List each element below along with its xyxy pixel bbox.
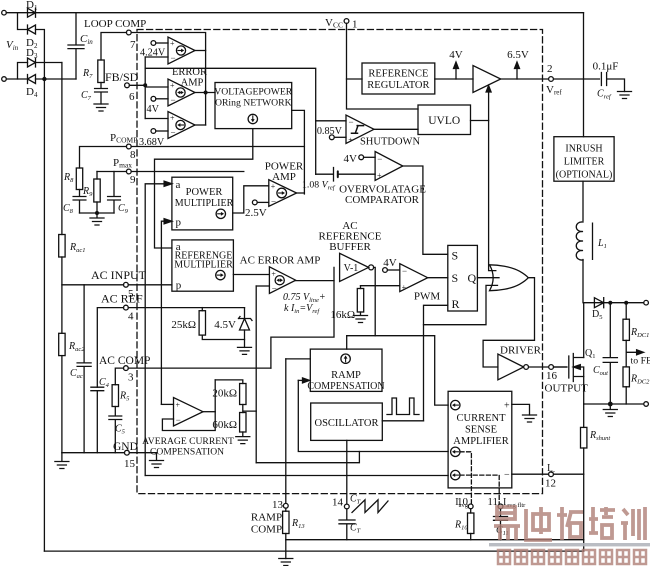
svg-text:COMP: COMP bbox=[251, 524, 282, 536]
wire pin7 external to R7 bbox=[101, 33, 126, 61]
IC boundary dashed box bbox=[137, 30, 543, 494]
wire ramp comp input 1 bbox=[286, 358, 311, 360]
wire pin16 to gate bbox=[554, 366, 567, 368]
svg-text:−: − bbox=[171, 95, 176, 105]
svg-text:R: R bbox=[452, 297, 460, 311]
node pin 9 Pmax bbox=[126, 169, 131, 174]
wire pin4 external to C4 bbox=[97, 308, 123, 388]
svg-text:+: + bbox=[377, 171, 382, 180]
wire pin3 internal bbox=[128, 367, 271, 369]
ground symbol under R13 bbox=[279, 559, 293, 566]
node 2.5V terminal bbox=[252, 200, 257, 205]
diode D4 bbox=[28, 75, 36, 84]
wire ramp comp top to summing line bbox=[346, 336, 348, 349]
block CURRENT SENSE AMPLIFIER bbox=[448, 391, 512, 488]
wire ref multiplier output to AC error amp plus bbox=[233, 274, 269, 276]
wire oscillator output bbox=[382, 420, 423, 422]
node pin 11 Iavgfltr bbox=[498, 504, 503, 509]
current mirror symbol 1 bbox=[451, 400, 460, 409]
resistor Rshunt bbox=[581, 427, 587, 448]
wire pin1 to ref regulator and UVLO bbox=[347, 23, 419, 109]
resistor 20k bbox=[240, 384, 246, 405]
capacitor CT bbox=[339, 509, 355, 540]
block REFERENGE MULTIPLIER bbox=[172, 240, 234, 291]
node Vin+ terminal bbox=[2, 10, 7, 15]
wire error amp input bracket bbox=[144, 57, 146, 119]
wire power multiplier output to power amp bbox=[233, 186, 269, 213]
dashed wire CS mirror2 to pin10 bbox=[460, 452, 471, 504]
svg-text:RAMP: RAMP bbox=[251, 512, 282, 524]
resistor R9 bbox=[96, 172, 98, 180]
node 4V terminal (OVP) bbox=[359, 155, 364, 160]
svg-text:4V: 4V bbox=[147, 104, 160, 115]
block S-R latch bbox=[448, 245, 478, 311]
svg-text:+: + bbox=[170, 114, 175, 123]
svg-text:GND: GND bbox=[113, 441, 138, 453]
node pin 6 FB/SD bbox=[125, 83, 130, 88]
svg-text:−: − bbox=[171, 53, 176, 63]
block RAMP COMPENSATION bbox=[310, 349, 382, 391]
wire gnd rail left bbox=[62, 452, 157, 454]
wire 3.68V to amp3 minus bbox=[156, 130, 168, 132]
wire top rail y12.7 bbox=[6, 12, 583, 14]
resistor 16k bbox=[360, 286, 362, 289]
wire power multiplier a input (from averaged current) bbox=[145, 184, 164, 476]
wire power multiplier p input (from avg current comp) bbox=[161, 221, 164, 404]
wire pin13 riser bbox=[285, 359, 287, 504]
wire source to Rshunt bbox=[583, 404, 585, 427]
svg-text:AC COMP: AC COMP bbox=[99, 355, 150, 367]
buffer vref bbox=[473, 66, 501, 93]
resistor R13 bbox=[285, 508, 287, 511]
block POWER MULTIPLIER bbox=[172, 177, 233, 230]
resistor RDC1 bbox=[625, 303, 627, 320]
diode D2 bbox=[28, 25, 36, 34]
watermark big text line bbox=[494, 507, 645, 540]
node pin 7 LOOP COMP bbox=[126, 30, 131, 35]
ground symbol under C7 bbox=[94, 104, 108, 111]
block UVLO bbox=[418, 105, 471, 135]
svg-text:POWER: POWER bbox=[186, 187, 223, 198]
diode D5 bbox=[584, 298, 646, 308]
wire branch to D2 bbox=[18, 13, 28, 30]
wire PWM output to latch S bbox=[428, 277, 448, 279]
wire avg comp output bbox=[203, 411, 215, 413]
svg-text:p: p bbox=[176, 217, 182, 229]
wire latch Q to OR gate bbox=[477, 277, 499, 279]
resistor R10 bbox=[470, 509, 472, 513]
svg-text:AMP: AMP bbox=[272, 171, 296, 183]
ground symbol left rail bbox=[55, 453, 69, 469]
resistor Rac1 bbox=[59, 235, 65, 258]
gate OR bbox=[490, 265, 529, 291]
svg-text:SHUTDOWN: SHUTDOWN bbox=[360, 137, 420, 148]
svg-text:4.24V: 4.24V bbox=[140, 48, 166, 59]
svg-text:a: a bbox=[176, 179, 181, 191]
resistor RDC2 bbox=[623, 367, 629, 387]
node pin 3 AC COMP bbox=[124, 366, 129, 371]
diode D1 bbox=[28, 8, 36, 17]
wire top rail down to inrush limiter bbox=[583, 13, 585, 137]
wire 4V to OVP minus bbox=[364, 156, 376, 158]
ground symbol CS plus bbox=[523, 415, 537, 422]
capacitor Cac bbox=[77, 285, 91, 453]
wire summing node to PWM plus bbox=[361, 285, 400, 287]
node pin 4 AC REF bbox=[124, 305, 129, 310]
node 4V internal arrow bbox=[455, 68, 457, 79]
node 0.85V terminal bbox=[329, 135, 334, 140]
svg-text:7: 7 bbox=[130, 39, 136, 51]
node DC output - terminal bbox=[644, 402, 649, 407]
wire CS plus output to ground bbox=[512, 404, 530, 415]
node 4V terminal (error amp2) bbox=[151, 96, 156, 101]
wire amp3 output bbox=[195, 124, 206, 126]
comparator overvoltage bbox=[375, 152, 403, 181]
wire 4V to PWM minus bbox=[387, 269, 399, 271]
wire accomp net to CS input 2 jog bbox=[256, 452, 359, 463]
wire OR output to driver bbox=[483, 278, 534, 367]
svg-text:4V: 4V bbox=[344, 153, 358, 165]
svg-text:AC REF: AC REF bbox=[101, 292, 143, 306]
wire FB/SD to shutdown and OVP bbox=[145, 68, 316, 174]
svg-text:+: + bbox=[170, 39, 175, 48]
wire drain up to D5 junction bbox=[583, 303, 585, 358]
wire R10 to rail bbox=[470, 534, 472, 540]
diode D3 bbox=[28, 58, 36, 67]
svg-text:0.1μF: 0.1μF bbox=[593, 61, 619, 73]
svg-text:AC INPUT: AC INPUT bbox=[91, 268, 147, 282]
node 6.5V arrow bbox=[516, 68, 518, 79]
ground symbol at pin15 bbox=[150, 453, 164, 468]
wire pin8 external to R8 bbox=[80, 147, 127, 169]
buffer V-1 bbox=[340, 253, 369, 281]
capacitor C7 bbox=[95, 83, 108, 105]
wire D3 output down bbox=[36, 62, 62, 64]
svg-text:REFERENCE: REFERENCE bbox=[368, 69, 428, 80]
wire ramp comp input 2 (arrow) bbox=[298, 379, 303, 381]
node error amp output dot bbox=[204, 91, 208, 95]
svg-text:LOOP COMP: LOOP COMP bbox=[84, 18, 146, 30]
node pin 15 GND bbox=[125, 450, 130, 455]
wire pin7 internal to error amp output bbox=[131, 33, 205, 126]
block INRUSH LIMITER (OPTIONAL) bbox=[554, 137, 614, 182]
wire amp2 output bbox=[195, 92, 215, 94]
wire 20k top connection bbox=[215, 380, 243, 384]
wire latch S1 input from OVP bbox=[403, 166, 448, 254]
wire inrush to L1 bbox=[582, 181, 584, 221]
wire amp2 plus stub bbox=[145, 86, 168, 88]
svg-text:INRUSH: INRUSH bbox=[565, 144, 602, 155]
node RDC1 top junction bbox=[624, 301, 628, 305]
node pin 13 RAMP COMP bbox=[283, 503, 288, 508]
wire pin9 internal to power multiplier output bbox=[131, 171, 244, 173]
svg-text:9: 9 bbox=[130, 174, 136, 186]
svg-text:4: 4 bbox=[128, 311, 134, 323]
transistor Q1 bbox=[569, 354, 584, 382]
svg-text:OSCILLATOR: OSCILLATOR bbox=[315, 418, 379, 429]
wire battery to OVP plus bbox=[339, 173, 375, 175]
svg-text:LIMITER: LIMITER bbox=[564, 157, 605, 168]
wire AC divider feed bbox=[61, 63, 63, 235]
node pin 5 AC INPUT bbox=[124, 282, 129, 287]
wire R13 to ground bbox=[285, 534, 287, 559]
svg-text:V-1: V-1 bbox=[344, 263, 359, 274]
capacitor C4 bbox=[91, 387, 104, 453]
wire driver output to pin16 bbox=[529, 366, 567, 368]
current mirror symbol 2 bbox=[451, 447, 460, 456]
capacitor Cref 0.1uF bbox=[601, 73, 624, 92]
ground symbol output bbox=[603, 404, 617, 417]
capacitor C11 bbox=[494, 509, 508, 540]
wire 25k bottom to zener anode bbox=[202, 335, 244, 339]
wire averaged current line to CS input 3 bbox=[145, 475, 448, 477]
svg-text:+: + bbox=[402, 283, 407, 292]
inductor L1 bbox=[576, 222, 583, 260]
wire pin4 internal to 25k and zener bbox=[128, 307, 244, 309]
svg-text:CURRENT: CURRENT bbox=[456, 413, 506, 424]
wire 4.24V to amp1 plus bbox=[156, 42, 168, 44]
wire amp1 output bbox=[195, 50, 206, 52]
svg-text:p: p bbox=[176, 280, 182, 292]
svg-text:2: 2 bbox=[547, 63, 553, 75]
node pin 2 Vref bbox=[549, 77, 554, 82]
node bridge return junction bbox=[42, 77, 46, 81]
svg-text:BUFFER: BUFFER bbox=[329, 241, 371, 253]
svg-text:14: 14 bbox=[332, 497, 344, 509]
svg-text:+: + bbox=[348, 136, 353, 145]
wire ref regulator output to buffer bbox=[435, 78, 473, 80]
wire UVLO net to OR top input bbox=[471, 121, 496, 271]
wire AC comp node riser bbox=[255, 286, 257, 463]
node 3.68V terminal bbox=[151, 129, 156, 134]
op-amp avg current comp bbox=[174, 398, 204, 427]
node pin 14 CT bbox=[344, 504, 349, 509]
wire schematic bottom border bbox=[44, 550, 583, 552]
wire summing line B to CS input 1 bbox=[347, 336, 448, 405]
svg-text:4V: 4V bbox=[449, 49, 463, 61]
svg-text:AC ERROR AMP: AC ERROR AMP bbox=[240, 255, 321, 267]
node Cout bottom junction bbox=[608, 402, 613, 407]
svg-text:DRIVER: DRIVER bbox=[500, 345, 542, 357]
wire power amp output bbox=[297, 192, 305, 194]
wire Rshunt to I- rail bbox=[583, 448, 585, 551]
wire D2 to return node bbox=[36, 30, 45, 80]
resistor Rac2 bbox=[59, 333, 65, 355]
svg-text:−: − bbox=[171, 128, 176, 138]
svg-text:PWM: PWM bbox=[414, 291, 441, 303]
wire buffer output to pin2 bbox=[501, 78, 600, 80]
svg-text:AVERAGE CURRENT: AVERAGE CURRENT bbox=[142, 436, 234, 447]
svg-text:COMPENSATION: COMPENSATION bbox=[150, 447, 224, 458]
wire pin9 external bbox=[97, 171, 126, 173]
wire 0.85V to shutdown plus bbox=[334, 136, 346, 138]
capacitor C5 bbox=[109, 407, 122, 453]
wire R8 R9 C9 common bbox=[80, 212, 115, 214]
wire pin5 external to divider tap bbox=[62, 284, 124, 286]
wire source down to output rail bbox=[583, 377, 585, 405]
svg-text:COMPARATOR: COMPARATOR bbox=[345, 194, 420, 206]
svg-text:1: 1 bbox=[352, 19, 358, 31]
wire zener to ground bbox=[244, 330, 246, 347]
svg-text:FB/SD: FB/SD bbox=[105, 70, 139, 84]
block VOLTAGEPOWER ORing NETWORK bbox=[215, 83, 292, 129]
svg-text:20kΩ: 20kΩ bbox=[212, 388, 237, 400]
wire pin1 branch to ref regulator bbox=[347, 78, 363, 80]
resistor 25k bbox=[201, 308, 203, 311]
wire ramp comp in2 riser to CS line bbox=[298, 380, 448, 451]
wire ORing output to PCOMP node bbox=[292, 110, 305, 194]
wire error out to V-1 input and comp loop bbox=[271, 267, 334, 368]
svg-text:12: 12 bbox=[545, 478, 556, 490]
svg-text:+: + bbox=[271, 182, 276, 191]
wire bottom input rail y79 bbox=[6, 78, 27, 80]
watermark underline bbox=[489, 543, 650, 546]
node pin 12 Is- bbox=[549, 472, 554, 477]
svg-text:−: − bbox=[377, 154, 382, 164]
wire OR gate bottom input from osc net bbox=[424, 285, 498, 324]
resistor R8 bbox=[76, 168, 82, 190]
wire oscillator bottom to pin14 bbox=[346, 440, 348, 504]
hysteresis glyph bbox=[352, 126, 364, 134]
wire 2.5V to power amp minus bbox=[257, 201, 269, 203]
waveform pulses bbox=[387, 398, 419, 415]
svg-text:+: + bbox=[176, 401, 181, 410]
svg-text:−: − bbox=[349, 117, 354, 127]
wire Rac2 to gnd rail bbox=[61, 356, 63, 453]
wire avg comp minus feedback bbox=[162, 380, 215, 431]
svg-text:6: 6 bbox=[129, 91, 135, 103]
svg-text:MULTIPLIER: MULTIPLIER bbox=[174, 260, 233, 271]
svg-text:25kΩ: 25kΩ bbox=[171, 319, 196, 331]
svg-text:0.85V: 0.85V bbox=[317, 126, 343, 137]
svg-text:UVLO: UVLO bbox=[428, 115, 460, 127]
op-amp error amp 3 bbox=[168, 112, 195, 139]
wire pin5 internal to ref multiplier p bbox=[128, 284, 172, 286]
svg-text:16kΩ: 16kΩ bbox=[330, 309, 355, 321]
wire shutdown output to UVLO bbox=[374, 128, 418, 130]
svg-text:Q: Q bbox=[468, 271, 477, 285]
svg-text:ORing NETWORK: ORing NETWORK bbox=[215, 98, 292, 109]
svg-text:OUTPUT: OUTPUT bbox=[545, 383, 589, 395]
svg-text:AMP: AMP bbox=[181, 78, 204, 89]
svg-text:60kΩ: 60kΩ bbox=[212, 419, 237, 431]
svg-text:4V: 4V bbox=[383, 257, 397, 269]
battery 1.08 Vref bbox=[316, 168, 338, 182]
node 4V terminal (PWM) bbox=[383, 268, 388, 273]
wire CS minus output to Is- bbox=[512, 473, 584, 475]
svg-text:2.5V: 2.5V bbox=[245, 207, 267, 219]
wire branch to D3 bbox=[18, 63, 28, 80]
svg-text:16: 16 bbox=[546, 370, 558, 382]
node pin 8 PCOMP bbox=[126, 144, 131, 149]
op-amp AC error amp bbox=[269, 267, 295, 294]
wire pin8 internal to power amp output bbox=[131, 146, 304, 148]
svg-text:8: 8 bbox=[130, 149, 136, 161]
op-amp error amp 1 bbox=[168, 37, 195, 64]
wire avg comp plus input bbox=[161, 403, 173, 405]
svg-text:−: − bbox=[271, 197, 276, 207]
ground symbol under zener bbox=[238, 347, 252, 354]
wire UVLO to buffer enable arrow bbox=[488, 92, 490, 121]
node Vin- terminal bbox=[2, 77, 7, 82]
svg-text:+: + bbox=[170, 81, 175, 90]
svg-text:(OPTIONAL): (OPTIONAL) bbox=[556, 170, 613, 181]
node R9 bottom junction bbox=[95, 211, 99, 215]
wire I- rail bbox=[286, 539, 584, 541]
svg-text:15: 15 bbox=[124, 458, 136, 470]
node DC output + terminal bbox=[644, 300, 649, 305]
wire RDC2 to bottom rail bbox=[625, 387, 627, 404]
block REFERENCE REGULATOR bbox=[362, 63, 435, 94]
node D5 Cout junction bbox=[608, 301, 612, 305]
ground symbol under 60k bbox=[236, 432, 250, 444]
dashed wire CS mirror3 to pin11 bbox=[460, 475, 499, 504]
wire pin6 internal bbox=[129, 84, 145, 86]
svg-text:−: − bbox=[504, 470, 510, 481]
zener diode 4.5V bbox=[239, 308, 253, 330]
wire amp1 minus stub bbox=[145, 56, 168, 58]
svg-text:SENSE: SENSE bbox=[465, 425, 497, 436]
resistor R5 bbox=[112, 385, 118, 407]
wire 20k to 60k junction bbox=[243, 405, 256, 413]
comparator shutdown bbox=[346, 115, 374, 144]
wire output bottom rail bbox=[584, 403, 646, 405]
comparator PWM bbox=[400, 264, 428, 292]
svg-text:3: 3 bbox=[128, 372, 134, 384]
svg-text:−: − bbox=[176, 415, 181, 425]
wire to FB arrow bbox=[626, 340, 637, 367]
ground symbol under 16k bbox=[354, 312, 368, 323]
svg-text:RAMP: RAMP bbox=[331, 370, 361, 381]
svg-text:S: S bbox=[452, 249, 459, 263]
svg-text:−: − bbox=[402, 266, 407, 276]
ground symbol under R9 bbox=[90, 213, 104, 225]
buffer driver bbox=[498, 354, 524, 380]
wire D4 to Cin bottom bbox=[36, 78, 77, 80]
resistor 60k bbox=[240, 413, 246, 433]
svg-text:13: 13 bbox=[272, 499, 284, 511]
wire shutdown minus branch bbox=[316, 120, 346, 122]
wire latch R input from oscillator bbox=[424, 305, 448, 421]
wire ORing bottom to ref multiplier a bbox=[155, 129, 253, 248]
capacitor C9 bbox=[108, 172, 121, 214]
block OSCILLATOR bbox=[311, 403, 383, 440]
wire AC error amp output bbox=[296, 280, 334, 282]
wire V-1 output to summing node bbox=[374, 267, 376, 335]
watermark small text line bbox=[498, 550, 646, 564]
svg-text:−: − bbox=[272, 284, 277, 294]
svg-text:to FB: to FB bbox=[631, 356, 650, 367]
svg-text:S: S bbox=[452, 271, 459, 285]
capacitor Cout bbox=[603, 303, 617, 404]
svg-text:VOLTAGEPOWER: VOLTAGEPOWER bbox=[214, 87, 293, 98]
wire pin3 external to R5 bbox=[115, 368, 123, 385]
node pin 16 OUTPUT bbox=[549, 365, 554, 370]
svg-text:MULTIPLIER: MULTIPLIER bbox=[175, 198, 234, 209]
resistor R7 bbox=[98, 60, 104, 83]
node FB/SD junction dot bbox=[143, 83, 147, 87]
wire amp3 plus stub bbox=[145, 118, 168, 120]
svg-text:4.5V: 4.5V bbox=[214, 319, 236, 331]
op-amp power amp bbox=[269, 180, 297, 207]
svg-text:REGULATOR: REGULATOR bbox=[367, 80, 429, 91]
node pin 1 Vcc bbox=[344, 19, 349, 24]
wire AC error amp minus input bbox=[256, 285, 269, 287]
ground symbol under Cref bbox=[618, 92, 632, 99]
current mirror symbol 3 bbox=[451, 470, 460, 479]
capacitor Cin bbox=[68, 13, 84, 79]
svg-text:+: + bbox=[504, 401, 510, 412]
